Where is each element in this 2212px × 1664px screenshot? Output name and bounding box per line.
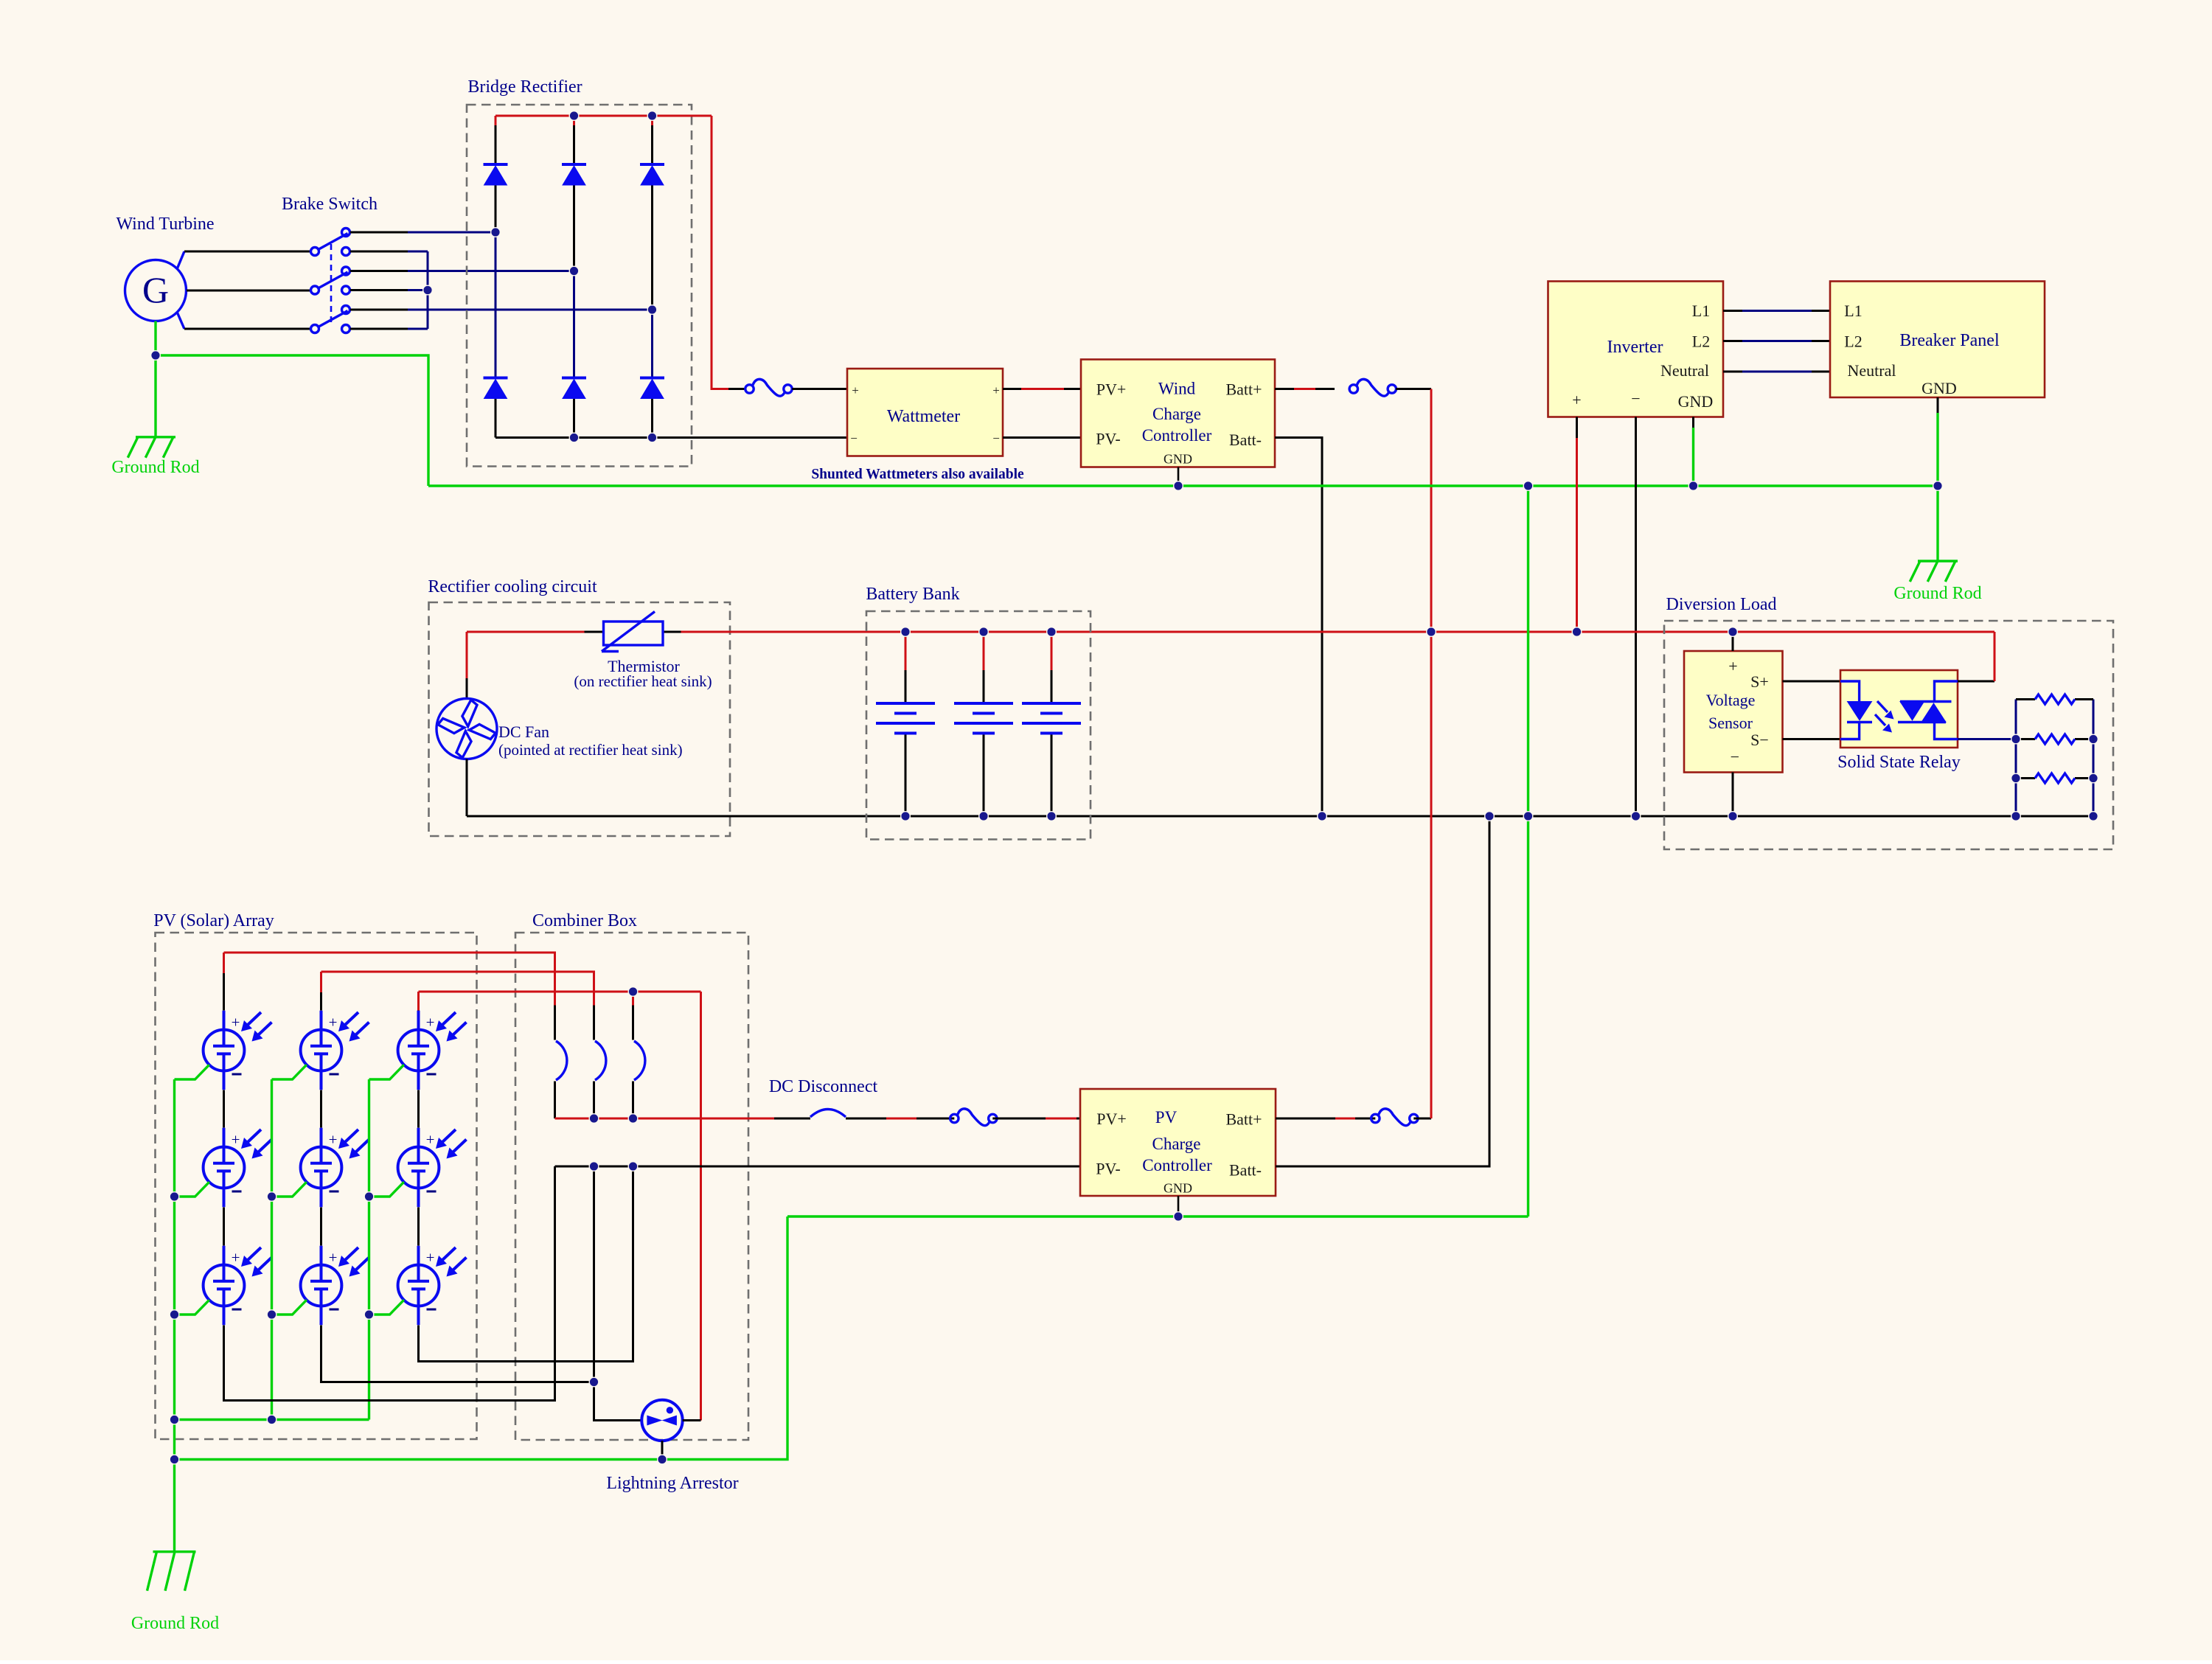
svg-text:L2: L2 bbox=[1692, 333, 1710, 351]
diode D1 (top) bbox=[484, 164, 508, 185]
wire wattmeter - to charge controller PV- bbox=[1003, 436, 1081, 439]
DC disconnect switch bbox=[810, 1110, 846, 1118]
junctions rectifier top bus bbox=[569, 111, 579, 121]
combiner box enclosure (dashed) bbox=[515, 933, 748, 1440]
svg-text:Neutral: Neutral bbox=[1660, 361, 1709, 380]
svg-text:+: + bbox=[1728, 657, 1737, 675]
wire PV cell 13 ground tap (green) bbox=[175, 1300, 209, 1315]
bridge rectifier enclosure (dashed) bbox=[467, 105, 692, 467]
fuse F1 (wind DC+) bbox=[745, 379, 792, 396]
svg-text:GND: GND bbox=[1678, 392, 1714, 411]
svg-text:Brake Switch: Brake Switch bbox=[282, 195, 378, 214]
svg-text:Charge: Charge bbox=[1152, 1135, 1200, 1153]
svg-text:Combiner Box: Combiner Box bbox=[532, 911, 637, 930]
svg-text:+: + bbox=[426, 1249, 435, 1267]
resistor R1 bbox=[2016, 695, 2093, 704]
wire fuse F3 to PV controller PV+ bbox=[992, 1118, 1046, 1120]
junction voltage sensor + bbox=[1728, 627, 1738, 637]
svg-text:Charge: Charge bbox=[1152, 405, 1201, 423]
diode D6 (bottom) bbox=[640, 378, 664, 399]
svg-text:PV+: PV+ bbox=[1096, 380, 1127, 399]
junction voltage sensor - bbox=[1728, 812, 1738, 821]
wire PV frame ground verticals (green) bbox=[173, 1079, 175, 1420]
svg-text:Ground Rod: Ground Rod bbox=[131, 1614, 219, 1633]
solar cell PV31 bbox=[398, 1011, 467, 1090]
junctions rectifier phase taps bbox=[491, 228, 501, 237]
wire turbine ground to ground rod bbox=[154, 355, 156, 437]
wire WCC Batt+ to fuse bbox=[1275, 388, 1294, 390]
junction string 3 feed to fuse bbox=[628, 987, 638, 997]
svg-text:−: − bbox=[1631, 389, 1640, 408]
wire PV string 2 negative return bbox=[321, 1326, 594, 1382]
breaker panel box bbox=[1830, 282, 2045, 398]
rectifier cooling circuit enclosure (dashed) bbox=[429, 602, 731, 836]
wire turbine frame ground drop bbox=[154, 321, 156, 356]
wire PV negative drop to arrestor level bbox=[594, 1166, 642, 1421]
wire PV frame ground header (green) bbox=[175, 1418, 369, 1421]
svg-text:Solid State Relay: Solid State Relay bbox=[1837, 753, 1961, 772]
inverter box bbox=[1548, 282, 1724, 417]
combiner breaker fuse 2 bbox=[593, 1006, 595, 1040]
svg-text:G: G bbox=[142, 269, 169, 310]
junction inverter - bbox=[1631, 812, 1641, 821]
wire inverter GND to ground bus bbox=[1692, 417, 1694, 428]
junction PV string 2 return bbox=[589, 1377, 599, 1387]
svg-text:Neutral: Neutral bbox=[1848, 361, 1896, 380]
wire breaker GND to ground rod bbox=[1937, 397, 1939, 413]
svg-text:+: + bbox=[329, 1249, 338, 1267]
battery B3 bbox=[1022, 703, 1081, 734]
wire PV string 3 column bbox=[417, 992, 420, 1012]
wire PV string 1 column bbox=[223, 953, 225, 973]
junction inverter + bbox=[1572, 627, 1582, 637]
svg-text:Controller: Controller bbox=[1142, 1156, 1212, 1174]
wire inverter + to battery + bus (red) bbox=[1576, 417, 1578, 439]
lightning arrestor bbox=[641, 1400, 682, 1441]
SSR internal LED bbox=[1840, 681, 1872, 739]
wire main ground bus (green) bbox=[428, 484, 1938, 487]
junction green riser at negative bus bond bbox=[1523, 812, 1533, 821]
junctions battery B3 bbox=[1047, 627, 1057, 637]
wire PV cell 33 ground tap (green) bbox=[369, 1300, 404, 1315]
junction PVCC GND bbox=[1174, 1212, 1183, 1222]
wire PV string 1 + feed (red) bbox=[224, 953, 555, 1006]
junction inverter GND bbox=[1688, 481, 1698, 491]
junction PVCC Batt- bbox=[1485, 812, 1495, 821]
wire PV cell 32 ground tap (green) bbox=[369, 1182, 404, 1197]
svg-text:Inverter: Inverter bbox=[1607, 338, 1663, 357]
svg-text:Ground Rod: Ground Rod bbox=[1893, 584, 1981, 603]
junctions battery B2 bbox=[979, 627, 989, 637]
svg-text:Sensor: Sensor bbox=[1708, 714, 1753, 732]
svg-text:+: + bbox=[1572, 391, 1581, 409]
wire lower ground bus (green) bbox=[175, 1216, 788, 1460]
wire inverter L2 to breaker L2 bbox=[1723, 340, 1742, 342]
wire phase C switch to rectifier bbox=[350, 309, 408, 311]
battery B2 bbox=[954, 703, 1013, 734]
solar cell PV21 bbox=[301, 1011, 369, 1090]
wire phase A switch to rectifier bbox=[350, 232, 408, 234]
wire rectifier leg 1 bbox=[495, 116, 497, 125]
svg-text:Breaker Panel: Breaker Panel bbox=[1899, 331, 2000, 350]
junction green string 3 row 2 bbox=[364, 1192, 374, 1202]
wire rectifier leg 2 bbox=[573, 116, 575, 125]
junction WCC GND on green bus bbox=[1174, 481, 1183, 491]
wire PV string 2 + feed (red) bbox=[321, 972, 594, 1006]
wire battery B3 leads bbox=[1051, 632, 1053, 670]
wire voltage sensor - to negative bus bbox=[1732, 773, 1734, 817]
junction green string 1 row 3 bbox=[170, 1310, 179, 1320]
wire surge line to lightning arrestor (red) bbox=[700, 992, 702, 1421]
svg-text:L1: L1 bbox=[1844, 302, 1862, 320]
wire PV ground down to rod (green) bbox=[173, 1420, 175, 1552]
wire generator phase B to brake switch bbox=[187, 290, 311, 292]
svg-text:+: + bbox=[232, 1249, 240, 1267]
svg-text:Batt+: Batt+ bbox=[1225, 1110, 1262, 1129]
wire battery B1 leads bbox=[905, 632, 907, 670]
wire battery B2 leads bbox=[983, 632, 985, 670]
junction WCC Batt- on battery - bus bbox=[1318, 812, 1327, 821]
svg-text:Ground Rod: Ground Rod bbox=[111, 458, 199, 477]
junction green string 1 row 2 bbox=[170, 1192, 179, 1202]
wire rectifier DC+ top bus (red) bbox=[495, 115, 712, 117]
svg-text:S+: S+ bbox=[1750, 672, 1769, 691]
SSR internal triac bbox=[1898, 681, 1958, 739]
svg-text:(pointed at rectifier heat sin: (pointed at rectifier heat sink) bbox=[498, 741, 683, 759]
junction PV ground at lower bus bbox=[170, 1455, 179, 1464]
wire fan top lead bbox=[466, 678, 468, 699]
wattmeter box bbox=[847, 369, 1003, 456]
svg-text:S−: S− bbox=[1750, 731, 1769, 749]
svg-text:−: − bbox=[1731, 748, 1739, 766]
wire PV cell 22 ground tap (green) bbox=[272, 1182, 307, 1197]
wire arrestor to surge line bbox=[683, 1419, 701, 1421]
voltage sensor box bbox=[1684, 651, 1783, 773]
svg-text:DC Disconnect: DC Disconnect bbox=[769, 1077, 878, 1096]
wire PV controller ground bus (green) bbox=[787, 1215, 1528, 1217]
resistor bank rails bbox=[2015, 700, 2017, 817]
wire generator phase A to brake switch bbox=[184, 251, 311, 253]
wire voltage sensor + to battery + bus bbox=[1732, 632, 1734, 651]
junction turbine ground bbox=[151, 351, 161, 361]
junction breaker GND on ground bus bbox=[1933, 481, 1943, 491]
wire PVCC Batt+ to fuse F4 bbox=[1276, 1118, 1335, 1120]
wire DC disconnect to fuse F3 bbox=[846, 1118, 886, 1120]
junction arrestor on green bus bbox=[658, 1455, 667, 1464]
svg-text:Shunted Wattmeters also availa: Shunted Wattmeters also available bbox=[811, 467, 1024, 482]
ground rod symbol (PV array) bbox=[147, 1552, 196, 1591]
wire PVCC GND to green bus bbox=[1178, 1196, 1180, 1216]
wire wattmeter + to charge controller PV+ bbox=[1003, 388, 1021, 390]
solar cell PV11 bbox=[204, 1011, 272, 1090]
junctions resistor bank bbox=[2011, 734, 2021, 744]
wire arrestor ground lead bbox=[661, 1441, 664, 1459]
solar cell PV23 bbox=[301, 1246, 369, 1326]
junctions PV frame ground header bbox=[170, 1415, 179, 1424]
combiner breaker fuse 3 bbox=[632, 1006, 634, 1040]
wire PV string 2 column bbox=[320, 972, 322, 992]
wire thermistor leads bbox=[585, 631, 604, 633]
fuse F2 (wind Batt+) bbox=[1349, 379, 1396, 396]
diode D3 (top) bbox=[640, 164, 664, 185]
wire PV cell 23 ground tap (green) bbox=[272, 1300, 307, 1315]
svg-text:PV+: PV+ bbox=[1096, 1110, 1127, 1128]
svg-text:Bridge Rectifier: Bridge Rectifier bbox=[467, 77, 582, 97]
diode D5 (bottom) bbox=[562, 378, 586, 399]
svg-text:+: + bbox=[329, 1131, 338, 1149]
svg-text:Battery Bank: Battery Bank bbox=[866, 585, 959, 604]
resistor R2 bbox=[2016, 734, 2093, 744]
fuse F3 (PV+) bbox=[950, 1109, 997, 1126]
wire PV string 3 + feed (red) bbox=[419, 991, 701, 993]
wire fuse F2 to battery + bus (red drop) bbox=[1396, 388, 1431, 390]
svg-text:+: + bbox=[232, 1131, 240, 1149]
wire WCC Batt- to battery - bus bbox=[1275, 438, 1322, 817]
wire PV- bus to PV controller bbox=[555, 1166, 1081, 1168]
svg-text:Wattmeter: Wattmeter bbox=[887, 407, 960, 426]
diode D4 (bottom) bbox=[484, 378, 508, 399]
svg-text:+: + bbox=[426, 1131, 435, 1149]
resistor R3 bbox=[2016, 773, 2093, 783]
solar cell PV22 bbox=[301, 1128, 369, 1208]
wire green riser to main ground bus bbox=[1527, 486, 1529, 1216]
solar cell PV32 bbox=[398, 1128, 467, 1208]
svg-text:Rectifier cooling circuit: Rectifier cooling circuit bbox=[428, 577, 597, 596]
svg-text:L2: L2 bbox=[1844, 333, 1862, 351]
svg-text:−: − bbox=[992, 431, 1000, 445]
combiner breaker fuse 1 bbox=[554, 1006, 556, 1040]
svg-text:L1: L1 bbox=[1692, 302, 1710, 320]
svg-text:GND: GND bbox=[1921, 379, 1957, 397]
svg-text:PV-: PV- bbox=[1096, 1160, 1120, 1178]
wire PV string 3 negative return bbox=[419, 1166, 633, 1362]
junctions PV- bus bbox=[589, 1162, 599, 1172]
wire S+ voltage sensor to SSR bbox=[1783, 680, 1841, 683]
wire generator phase C to brake switch bbox=[184, 328, 311, 330]
diode D2 (top) bbox=[562, 164, 586, 185]
battery bank enclosure (dashed) bbox=[866, 611, 1091, 840]
wire PVCC Batt- to negative bus bbox=[1276, 816, 1489, 1166]
solid state relay box K1 bbox=[1840, 670, 1958, 748]
wire inverter Neutral to breaker Neutral bbox=[1723, 371, 1742, 373]
fuse F4 (PV Batt+) bbox=[1371, 1109, 1418, 1126]
svg-text:Lightning Arrestor: Lightning Arrestor bbox=[606, 1474, 738, 1493]
svg-text:+: + bbox=[426, 1014, 435, 1031]
svg-text:PV: PV bbox=[1155, 1108, 1178, 1127]
svg-text:+: + bbox=[232, 1014, 240, 1031]
junction green string 2 row 3 bbox=[267, 1310, 276, 1320]
wind turbine generator G bbox=[125, 251, 187, 329]
junction wind Batt+ on battery + bus bbox=[1427, 627, 1436, 637]
wind charge controller box U1 bbox=[1081, 360, 1275, 467]
wire brake switch shorting bar bbox=[350, 251, 408, 253]
svg-text:Controller: Controller bbox=[1142, 426, 1212, 445]
junctions combiner PV+ bus bbox=[589, 1114, 599, 1124]
wire inverter L1 to breaker L1 bbox=[1723, 310, 1742, 312]
battery B1 bbox=[876, 703, 935, 734]
junction on shorting bar bbox=[423, 285, 433, 295]
wire PV cell 12 ground tap (green) bbox=[175, 1182, 209, 1197]
svg-text:(on rectifier heat sink): (on rectifier heat sink) bbox=[574, 672, 712, 690]
solar cell PV33 bbox=[398, 1246, 467, 1326]
wire PV cell 31 ground tap (green) bbox=[369, 1065, 404, 1079]
PV array enclosure (dashed) bbox=[156, 933, 477, 1439]
wire WCC GND to green bus bbox=[1178, 467, 1180, 487]
wire phase B switch to rectifier bbox=[350, 270, 408, 272]
wire rectifier leg 3 bbox=[651, 116, 653, 125]
svg-text:Diversion Load: Diversion Load bbox=[1666, 595, 1777, 614]
diversion load enclosure (dashed) bbox=[1664, 621, 2113, 849]
svg-text:Batt-: Batt- bbox=[1229, 431, 1262, 449]
SSR internal light arrows bbox=[1875, 701, 1894, 733]
ground rod symbol (wind turbine) bbox=[128, 437, 175, 458]
svg-text:GND: GND bbox=[1164, 452, 1192, 467]
junctions rectifier bottom bus bbox=[569, 433, 579, 442]
ground rod symbol (breaker panel) bbox=[1910, 561, 1958, 582]
wire cooling circuit + (red) bbox=[467, 631, 585, 633]
wire rectifier DC+ down leg (red) bbox=[712, 116, 728, 389]
wire SSR output to resistor bank bbox=[1958, 738, 2016, 740]
svg-text:Wind: Wind bbox=[1158, 380, 1196, 398]
wire rectifier DC- bottom bus bbox=[495, 436, 847, 439]
solar cell PV13 bbox=[204, 1246, 272, 1326]
brake switch 3-pole contacts and blades bbox=[311, 229, 350, 333]
wire SSR output to battery + (red drop) bbox=[1958, 680, 1994, 683]
svg-text:Voltage: Voltage bbox=[1706, 691, 1756, 709]
wire PV string 1 negative return bbox=[224, 1166, 555, 1401]
svg-text:PV-: PV- bbox=[1096, 430, 1120, 448]
junctions battery B1 bbox=[901, 627, 911, 637]
svg-text:−: − bbox=[850, 431, 858, 445]
svg-text:GND: GND bbox=[1164, 1181, 1192, 1196]
junction green string 3 row 3 bbox=[364, 1310, 374, 1320]
wire S- voltage sensor to SSR bbox=[1783, 738, 1841, 740]
DC fan M1 bbox=[437, 699, 497, 759]
wire PV cell 11 ground tap (green) bbox=[175, 1065, 209, 1079]
wire PV cell 21 ground tap (green) bbox=[272, 1065, 307, 1079]
svg-text:+: + bbox=[852, 383, 859, 397]
wire combiner PV+ output bus (red) bbox=[555, 1118, 775, 1120]
thermistor RT1 bbox=[602, 612, 663, 652]
wire to wind fuse bbox=[728, 388, 745, 390]
wire inverter - to battery - bus bbox=[1635, 417, 1637, 817]
wire fuse to wattmeter + bbox=[792, 388, 847, 390]
svg-text:Batt-: Batt- bbox=[1229, 1161, 1262, 1180]
wire PV+ to DC disconnect bbox=[774, 1118, 810, 1120]
svg-text:+: + bbox=[992, 383, 1000, 397]
wire fuse F4 to battery + bus (red riser) bbox=[1413, 1118, 1431, 1120]
wire main negative bus bbox=[467, 815, 2093, 818]
brake switch mechanical link (dashed) bbox=[330, 244, 333, 322]
svg-text:PV (Solar) Array: PV (Solar) Array bbox=[153, 911, 274, 930]
svg-text:Batt+: Batt+ bbox=[1225, 380, 1262, 399]
svg-text:Wind Turbine: Wind Turbine bbox=[116, 215, 214, 234]
wire green turbine ground east run bbox=[156, 355, 428, 486]
solar cell PV12 bbox=[204, 1128, 272, 1208]
wire fan bottom to negative bus bbox=[466, 759, 468, 817]
junction green string 2 row 2 bbox=[267, 1192, 276, 1202]
svg-text:DC Fan: DC Fan bbox=[498, 723, 549, 741]
svg-text:+: + bbox=[329, 1014, 338, 1031]
junction green riser top bbox=[1523, 481, 1533, 491]
wire battery positive bus (red) bbox=[681, 631, 1995, 633]
PV charge controller box U2 bbox=[1080, 1089, 1276, 1196]
